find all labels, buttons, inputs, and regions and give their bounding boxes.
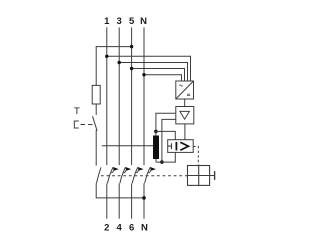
op-amp triangle bbox=[180, 111, 190, 119]
svg-text:3: 3 bbox=[117, 16, 122, 27]
relay input tick bbox=[168, 143, 172, 149]
release hook pole 3 bbox=[124, 170, 126, 173]
contact blade test pole bbox=[96, 167, 101, 183]
wire winding top to amp input 1 bbox=[156, 113, 176, 131]
wire winding bottom to amp input 2 bbox=[162, 119, 176, 162]
node winding bottom bbox=[160, 160, 164, 164]
svg-text:1: 1 bbox=[104, 16, 110, 27]
node on line N bbox=[142, 73, 145, 76]
wire pole 3 top vertical bbox=[118, 27, 120, 165]
wire line 1 to rectifier bbox=[107, 56, 191, 81]
svg-text:5: 5 bbox=[129, 16, 135, 27]
contact blade pole N bbox=[145, 167, 151, 183]
svg-text:6: 6 bbox=[129, 222, 134, 233]
contact blade pole 5 bbox=[132, 167, 138, 183]
mechanism divider bbox=[198, 166, 200, 186]
release arrow pole 5 bbox=[138, 167, 144, 171]
secondary winding W1 (black bar) bbox=[153, 136, 159, 160]
release hook pole N bbox=[149, 170, 151, 173]
svg-text:T: T bbox=[74, 106, 80, 117]
actuator link dashed bbox=[81, 124, 93, 126]
relay I glyph bbox=[175, 142, 177, 151]
rectifier U1 box bbox=[176, 81, 194, 99]
wire pole 5 top vertical bbox=[131, 27, 133, 165]
svg-text:N: N bbox=[141, 222, 148, 233]
release arrow pole 1 bbox=[113, 167, 119, 171]
push-button actuator E bbox=[74, 121, 79, 128]
wire line N to rectifier bbox=[144, 75, 182, 81]
wire line 5 to rectifier bbox=[132, 69, 185, 82]
relay I> box bbox=[168, 140, 194, 153]
rectifier DC symbol bbox=[187, 94, 190, 96]
mechanism handle bar bbox=[214, 171, 216, 180]
relay greater-than glyph bbox=[180, 142, 188, 150]
contact blade pole 1 bbox=[107, 167, 113, 183]
node on line 5 bbox=[130, 67, 133, 70]
wire amp to relay I> bbox=[184, 124, 186, 140]
mechanism linkage dashed bbox=[101, 175, 188, 177]
wire winding bottom to relay I> bottom bbox=[156, 152, 175, 162]
node test rail on N bbox=[142, 196, 146, 200]
rectifier diagonal bbox=[176, 81, 194, 99]
wire test return rail bbox=[96, 183, 144, 198]
wire pole N top vertical bbox=[143, 27, 145, 165]
test switch blade bbox=[93, 116, 97, 131]
wire pole 1 bottom bbox=[106, 183, 108, 218]
mechanism box bbox=[188, 166, 210, 186]
op-amp U2 box bbox=[176, 107, 194, 124]
wire pole 1 top vertical bbox=[106, 27, 108, 165]
release arrow pole N bbox=[150, 167, 156, 171]
release arrow pole 3 bbox=[125, 167, 131, 171]
wire rectifier to amplifier bbox=[184, 99, 186, 107]
svg-text:N: N bbox=[140, 16, 147, 27]
node on line 3 bbox=[118, 61, 121, 64]
wire winding top to relay I> top bbox=[156, 131, 175, 139]
contact blade pole 3 bbox=[120, 167, 126, 183]
release hook pole 5 bbox=[136, 170, 138, 173]
wire test tap from line 5 to resistor bbox=[96, 47, 131, 86]
svg-text:2: 2 bbox=[104, 222, 109, 233]
svg-text:4: 4 bbox=[117, 222, 123, 233]
wire pole 5 bottom bbox=[131, 183, 133, 218]
wire line 3 to rectifier bbox=[119, 63, 187, 82]
rectifier AC symbol bbox=[179, 85, 183, 86]
wire pole 3 bottom bbox=[118, 183, 120, 218]
wire resistor to test switch bbox=[95, 104, 97, 115]
winding top stub bbox=[155, 131, 157, 135]
current transformer core line bbox=[102, 145, 153, 147]
node on line 5 test tap bbox=[130, 45, 133, 48]
node on line 1 bbox=[105, 55, 108, 58]
node winding top bbox=[154, 130, 158, 134]
release hook pole 1 bbox=[111, 170, 113, 173]
wire pole N bottom bbox=[143, 183, 145, 218]
mechanism axis bbox=[188, 175, 215, 177]
resistor R test bbox=[92, 85, 100, 104]
dashed link relay to mechanism bbox=[193, 147, 198, 166]
wire test switch to contact row bbox=[95, 130, 97, 166]
winding bottom stub bbox=[155, 159, 157, 162]
